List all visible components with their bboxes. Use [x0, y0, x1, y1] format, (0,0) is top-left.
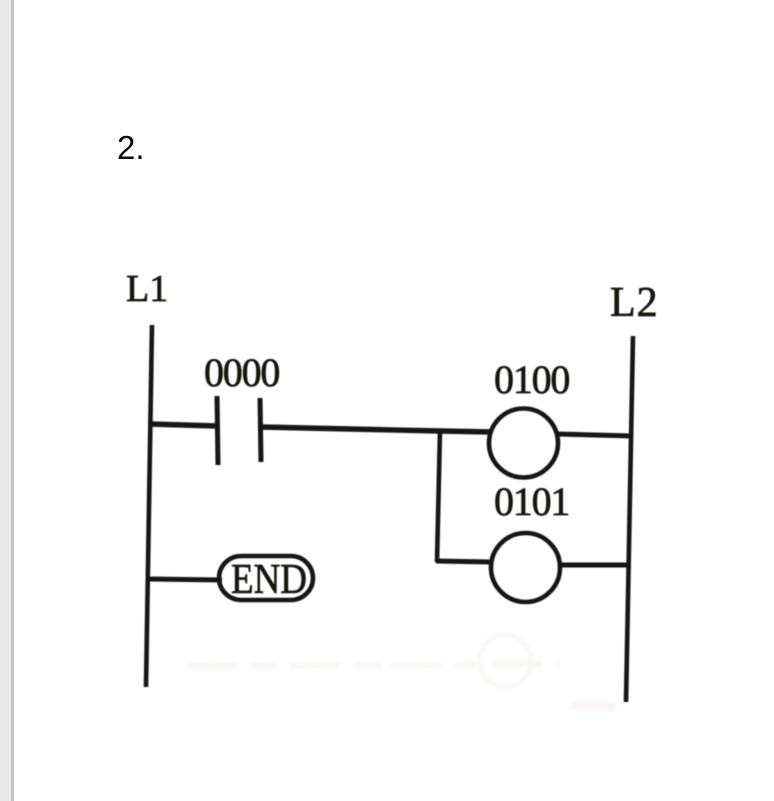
- svg-text:END: END: [231, 556, 307, 603]
- contact 0000: [217, 396, 261, 465]
- rail L1: [146, 325, 152, 687]
- scrollbar strip: [0, 0, 11, 801]
- node branch junction: [437, 430, 440, 562]
- svg-text:L2: L2: [610, 280, 659, 326]
- wire rung1 right: [261, 427, 492, 432]
- wire branch to coil 0101: [436, 561, 492, 562]
- svg-text:0100: 0100: [494, 357, 569, 402]
- coil 0101: [491, 533, 560, 602]
- wire coil 0101 to L2: [559, 563, 629, 568]
- rail L2: [626, 336, 633, 702]
- wire rung2 to END: [149, 579, 222, 580]
- END instruction box: [219, 556, 313, 603]
- item number 2.: [117, 129, 145, 167]
- wire coil 0100 to L2: [557, 434, 632, 436]
- svg-text:0101: 0101: [494, 479, 569, 524]
- wire rung1 left: [150, 424, 217, 426]
- ghost bleed-through line: [187, 635, 616, 709]
- svg-text:0000: 0000: [204, 350, 279, 395]
- svg-text:L1: L1: [126, 268, 168, 310]
- coil 0100: [489, 409, 558, 478]
